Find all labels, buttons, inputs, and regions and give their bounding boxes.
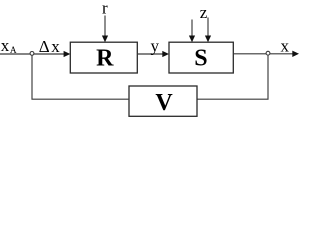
svg-text:x: x [51, 37, 60, 56]
svg-text:r: r [102, 0, 108, 17]
svg-text:S: S [194, 46, 207, 72]
node B: branch circle on output line [266, 51, 270, 55]
svg-text:z: z [200, 3, 208, 22]
wire: R to S with y [137, 53, 163, 55]
wire: z arrow 2 into S top [207, 18, 209, 37]
svg-text:R: R [96, 46, 114, 72]
svg-text:x: x [280, 37, 289, 56]
svg-text:Δ: Δ [39, 37, 50, 56]
block V [129, 86, 197, 116]
wire: S output line to x [233, 53, 293, 55]
arrowhead output x [292, 51, 299, 57]
block S [169, 42, 233, 73]
wire: feedback right vertical [197, 55, 268, 99]
svg-text:y: y [150, 36, 159, 55]
svg-text:V: V [155, 90, 173, 116]
svg-text:x: x [1, 36, 10, 55]
svg-text:A: A [10, 46, 17, 56]
wire: r arrow into R top [104, 16, 106, 37]
wire: input line xA to summing node to R [0, 53, 65, 55]
wire: feedback left return to node A [32, 55, 129, 99]
node A: branch circle on input line [30, 52, 34, 56]
arrowhead into R [64, 51, 71, 57]
block R [70, 42, 137, 73]
wire: z arrow 1 into S top [191, 20, 193, 37]
